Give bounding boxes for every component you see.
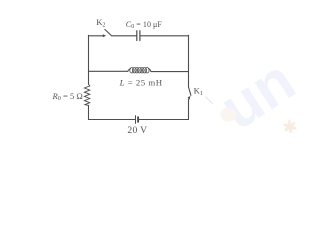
wire bottom-right segment [139,119,189,121]
svg-text:K1: K1 [194,86,203,97]
battery positive plate [135,116,137,124]
wire middle right segment [151,71,189,73]
wire top-right segment [140,35,188,37]
watermark orange asterisk [283,120,296,133]
switch K1 fixed contact arrowhead [188,96,191,100]
inductor L coil loops [130,68,149,73]
switch K2 blade [105,29,111,35]
wire right upper [188,35,190,87]
svg-text:L = 25 mH: L = 25 mH [119,78,163,88]
wire middle left segment [89,70,129,72]
wire top-left segment [89,35,104,37]
switch K2 fixed contact arrowhead [103,34,106,37]
capacitor C0 right plate [139,31,141,41]
svg-text:un: un [208,46,300,135]
svg-text:K2: K2 [96,17,105,28]
svg-text:R0 = 5 Ω: R0 = 5 Ω [52,91,83,102]
wire right lower [188,99,190,120]
watermark orange blob [221,108,237,122]
resistor R0 zigzag [84,84,89,105]
svg-text:20 V: 20 V [127,125,147,135]
wire top-middle segment [111,35,136,37]
svg-text:C0 = 10 μF: C0 = 10 μF [126,20,163,30]
inductor L coil exit ramp [148,69,151,72]
switch K1 blade [189,87,191,95]
watermark faint streak [206,97,213,104]
wire left lower [88,105,90,119]
wire bottom-left segment [89,119,136,121]
wire left upper [88,35,90,84]
inductor L coil entry ramp [128,69,131,72]
battery negative plate [137,117,139,122]
capacitor C0 left plate [136,31,138,41]
